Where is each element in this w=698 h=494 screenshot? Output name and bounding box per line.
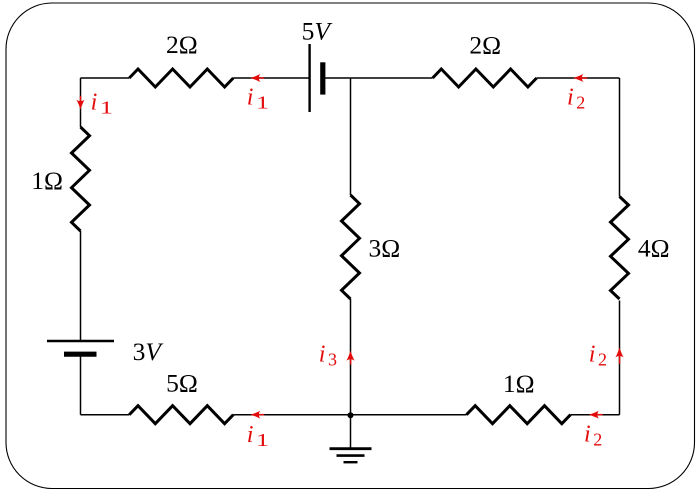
- wire top-left b: [233, 77, 309, 79]
- wire mid vert bottom: [350, 299, 352, 415]
- wire bottom-mid: [233, 414, 466, 416]
- wire left vert bottom: [80, 354, 82, 415]
- resistor R4 3&#937; middle: [342, 195, 401, 299]
- resistor R5 4&#937; right: [611, 197, 670, 300]
- svg-text:1Ω: 1Ω: [503, 369, 535, 398]
- ground: [330, 449, 372, 463]
- current arrow i1 left (bottom wire): [250, 411, 264, 419]
- current arrow i3 up (middle branch): [346, 351, 354, 365]
- current arrow i1 left (top wire): [250, 74, 264, 82]
- resistor R6 5&#937; bottom-left: [129, 368, 233, 423]
- wire top-left a: [81, 77, 130, 79]
- current arrow i2 left (top-right wire): [573, 74, 587, 82]
- svg-text:5Ω: 5Ω: [166, 368, 198, 397]
- wire right vert bottom: [619, 301, 621, 415]
- resistor R7 1&#937; bottom-right: [467, 369, 571, 424]
- wire top-right a: [323, 77, 433, 79]
- wire bottom-left: [81, 414, 130, 416]
- wire left vert top: [80, 78, 82, 127]
- wire right vert top: [619, 78, 621, 197]
- wire top-right b: [537, 77, 620, 79]
- svg-text:5V: 5V: [302, 17, 334, 46]
- resistor R2 2&#937; top-right: [433, 30, 537, 87]
- node junction dot: [348, 412, 354, 418]
- svg-text:3Ω: 3Ω: [369, 233, 401, 262]
- wire bottom-right: [571, 414, 620, 416]
- current arrow i2 left (bottom-right wire): [589, 411, 603, 419]
- battery V1 5V (top): [302, 17, 334, 112]
- svg-text:3V: 3V: [133, 337, 165, 366]
- resistor R3 1&#937; left: [31, 127, 89, 231]
- current arrow i1 down (left branch): [76, 96, 84, 110]
- wire mid vert top: [350, 78, 352, 195]
- wire ground stub: [350, 415, 352, 449]
- resistor R1 2&#937; top-left: [129, 30, 233, 87]
- svg-text:1Ω: 1Ω: [31, 166, 63, 195]
- svg-text:2Ω: 2Ω: [166, 30, 198, 59]
- current arrow i2 up (right branch): [615, 347, 623, 364]
- svg-text:2Ω: 2Ω: [469, 30, 501, 59]
- svg-text:4Ω: 4Ω: [638, 233, 670, 262]
- battery V2 3V (left): [47, 337, 164, 366]
- wire left vert mid: [80, 231, 82, 341]
